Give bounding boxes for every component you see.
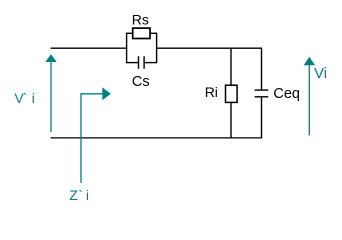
svg-text:Ri: Ri bbox=[205, 84, 218, 100]
svg-text:Ceq: Ceq bbox=[273, 86, 300, 102]
wire: Ceq branch upper lead bbox=[261, 48, 263, 90]
svg-text:i: i bbox=[86, 187, 89, 203]
wire: Rs left lead bbox=[127, 32, 133, 34]
svg-text:`: ` bbox=[23, 90, 28, 106]
wire: Rs right lead bbox=[150, 32, 156, 34]
capacitor Cs right plate bbox=[143, 56, 145, 69]
wire: Rs/Cs parallel block left vertical bbox=[126, 33, 128, 64]
wire: Rs/Cs parallel block right vertical bbox=[156, 33, 158, 64]
wire: bottom rail bbox=[51, 137, 263, 139]
wire: Ri branch lower lead bbox=[230, 102, 232, 138]
svg-text:Cs: Cs bbox=[132, 74, 150, 90]
label V`i bbox=[14, 90, 35, 106]
wire: Ceq branch lower lead bbox=[261, 97, 263, 138]
resistor Ri (body) bbox=[226, 85, 238, 102]
annotation arrow Vi (output voltage, pointing up) bbox=[304, 57, 315, 136]
capacitor Cs left plate bbox=[138, 56, 140, 69]
label Z`i bbox=[69, 187, 89, 203]
wire: Ri branch upper lead bbox=[230, 48, 232, 85]
capacitor Ceq bottom plate bbox=[255, 96, 269, 98]
wire: top rail right segment (block to output node) bbox=[157, 47, 263, 49]
resistor Rs (body) bbox=[133, 28, 150, 38]
annotation arrow V`i (input voltage, pointing up) bbox=[45, 54, 56, 132]
wire: Cs left lead bbox=[127, 62, 139, 64]
svg-text:i: i bbox=[32, 90, 35, 106]
svg-text:Rs: Rs bbox=[132, 11, 149, 27]
capacitor Ceq top plate bbox=[255, 89, 269, 91]
annotation arrow Z`i (input impedance, bent, pointing right) bbox=[81, 87, 111, 183]
wire: top rail left segment (input top terminal to Rs/Cs block) bbox=[51, 47, 128, 49]
svg-text:Z: Z bbox=[69, 187, 78, 203]
svg-text:Vi: Vi bbox=[314, 65, 327, 82]
svg-text:`: ` bbox=[78, 187, 83, 203]
wire: Cs right lead bbox=[144, 62, 157, 64]
